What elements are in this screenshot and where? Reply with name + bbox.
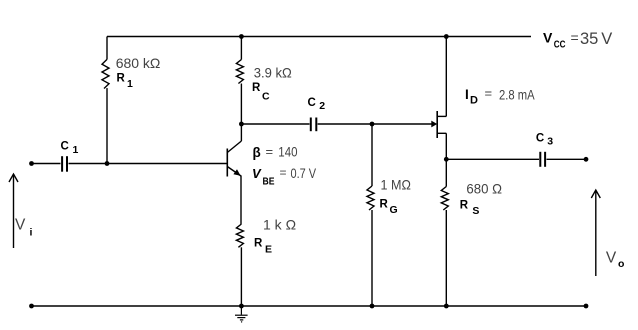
svg-text:2.8 mA: 2.8 mA — [499, 86, 535, 102]
svg-text:0.7 V: 0.7 V — [291, 165, 317, 181]
resistor RC — [236, 60, 243, 84]
svg-text:680 Ω: 680 Ω — [466, 181, 502, 197]
node top rail / RC junction — [239, 34, 244, 39]
wire RC branch lower — [240, 84, 242, 125]
svg-text:V: V — [252, 166, 262, 181]
resistor R1 — [102, 59, 109, 88]
svg-text:140: 140 — [278, 144, 297, 160]
node gate / RG junction — [370, 122, 375, 127]
transistor Q1 emitter arrow — [233, 169, 240, 176]
wire R1 branch lower — [106, 88, 108, 163]
transistor Q1 base bar — [226, 149, 228, 177]
svg-text:680 kΩ: 680 kΩ — [116, 55, 161, 71]
transistor J1 source stub — [437, 132, 446, 134]
svg-text:1 k Ω: 1 k Ω — [263, 217, 296, 233]
wire RS branch upper — [445, 159, 447, 186]
svg-text:BE: BE — [263, 175, 275, 187]
svg-text:V: V — [601, 30, 612, 48]
wire input to C1 — [32, 163, 61, 165]
wire RG branch upper — [371, 124, 373, 186]
transistor Q1 emitter diagonal — [227, 167, 241, 177]
svg-text:S: S — [472, 205, 479, 217]
svg-text:2: 2 — [319, 100, 325, 112]
node collector junction — [239, 122, 244, 127]
svg-text:V: V — [606, 250, 617, 267]
wire C1 to base — [69, 163, 228, 165]
wire top rail VCC — [107, 36, 531, 38]
svg-text:i: i — [30, 227, 33, 239]
svg-text:CC: CC — [554, 38, 566, 50]
svg-text:o: o — [618, 258, 624, 270]
wire RE branch lower — [240, 247, 242, 306]
arrow Vo — [591, 190, 600, 276]
svg-text:V: V — [543, 29, 553, 45]
svg-text:3.9 kΩ: 3.9 kΩ — [254, 64, 292, 80]
node output terminal — [584, 157, 589, 162]
node bottom RS junction — [444, 304, 449, 309]
node top rail / drain junction — [444, 34, 449, 39]
svg-text:=: = — [485, 86, 493, 101]
node bottom RG junction — [370, 304, 375, 309]
svg-text:R: R — [252, 82, 261, 94]
node base / R1 junction — [105, 161, 110, 166]
wire RC branch upper — [240, 37, 242, 60]
transistor J1 drain stub — [437, 115, 446, 117]
svg-text:R: R — [460, 199, 469, 211]
svg-text:I: I — [465, 87, 469, 102]
wire collector — [240, 124, 242, 141]
svg-text:R: R — [117, 73, 126, 85]
svg-text:C: C — [308, 97, 316, 109]
wire source to C3 — [446, 158, 539, 160]
svg-text:=: = — [280, 166, 287, 180]
ground — [235, 306, 248, 320]
arrow Vi — [9, 174, 18, 248]
node bottom RE junction — [239, 304, 244, 309]
svg-text:3: 3 — [547, 135, 553, 147]
svg-text:G: G — [390, 204, 398, 216]
wire drain — [445, 37, 447, 117]
node source junction — [444, 157, 449, 162]
resistor RE — [236, 224, 243, 247]
capacitor C2 — [310, 118, 312, 132]
svg-text:C: C — [536, 133, 544, 145]
svg-text:R: R — [254, 238, 263, 250]
resistor RS — [441, 187, 448, 211]
capacitor C3 — [539, 152, 541, 167]
transistor J1 channel bar — [436, 111, 438, 138]
svg-text:35: 35 — [580, 30, 598, 48]
svg-text:=: = — [571, 30, 579, 46]
svg-text:β: β — [253, 145, 261, 160]
svg-text:R: R — [380, 199, 389, 211]
svg-text:E: E — [265, 244, 272, 256]
svg-text:=: = — [266, 144, 274, 159]
wire source — [445, 133, 447, 159]
node input terminal — [29, 161, 34, 166]
wire C3 to output — [547, 158, 585, 160]
node bottom left terminal — [29, 304, 34, 309]
svg-text:1: 1 — [73, 144, 79, 156]
node bottom right terminal — [584, 304, 589, 309]
svg-text:1 MΩ: 1 MΩ — [381, 176, 411, 192]
gate arrow — [431, 121, 437, 128]
wire R1 branch upper — [106, 37, 108, 60]
svg-text:D: D — [470, 95, 478, 107]
svg-text:C: C — [61, 140, 69, 152]
svg-text:V: V — [15, 217, 26, 234]
wire RG branch lower — [371, 210, 373, 306]
wire C2 to gate — [318, 123, 432, 125]
wire emitter — [240, 176, 242, 225]
resistor RG — [367, 186, 374, 210]
capacitor C1 — [61, 156, 63, 172]
wire collector to C2 — [241, 123, 309, 125]
svg-text:C: C — [262, 91, 270, 103]
wire RS branch lower — [445, 210, 447, 306]
wire bottom rail — [32, 305, 587, 307]
svg-text:1: 1 — [127, 78, 133, 90]
transistor Q1 collector diagonal — [227, 141, 241, 153]
